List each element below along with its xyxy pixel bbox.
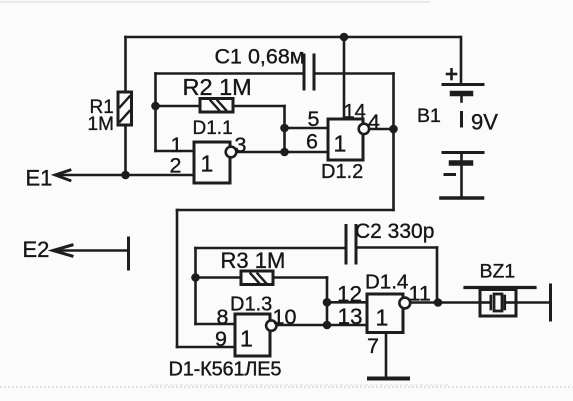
svg-text:10: 10: [273, 305, 297, 329]
svg-text:D1.4: D1.4: [365, 271, 408, 294]
svg-text:6: 6: [306, 130, 318, 154]
svg-text:9: 9: [215, 327, 227, 351]
svg-text:7: 7: [367, 334, 379, 358]
svg-text:B1: B1: [417, 105, 441, 127]
svg-text:14: 14: [344, 101, 366, 123]
svg-text:E1: E1: [26, 166, 53, 191]
svg-text:12: 12: [337, 282, 362, 307]
svg-text:1: 1: [201, 151, 214, 177]
svg-text:13: 13: [338, 304, 363, 329]
svg-text:9V: 9V: [471, 110, 498, 135]
svg-text:11: 11: [409, 282, 431, 306]
svg-text:C1 0,68м: C1 0,68м: [215, 45, 305, 69]
svg-text:2: 2: [170, 154, 182, 178]
svg-text:D1.2: D1.2: [321, 161, 363, 183]
svg-text:1: 1: [334, 131, 347, 157]
svg-text:3: 3: [235, 133, 247, 157]
svg-text:BZ1: BZ1: [480, 261, 516, 283]
svg-text:1M: 1M: [88, 114, 114, 135]
svg-text:5: 5: [308, 107, 320, 131]
svg-text:E2: E2: [23, 237, 50, 262]
svg-text:1: 1: [240, 326, 253, 352]
svg-text:C2 330p: C2 330p: [355, 220, 434, 243]
svg-text:D1.1: D1.1: [193, 118, 233, 139]
svg-text:4: 4: [368, 110, 380, 134]
svg-text:8: 8: [217, 305, 229, 329]
svg-text:1: 1: [376, 305, 389, 331]
svg-text:R2 1M: R2 1M: [183, 74, 252, 100]
svg-text:D1-К561ЛЕ5: D1-К561ЛЕ5: [169, 359, 282, 381]
svg-text:D1.3: D1.3: [230, 294, 272, 316]
svg-text:R3 1M: R3 1M: [221, 248, 286, 273]
